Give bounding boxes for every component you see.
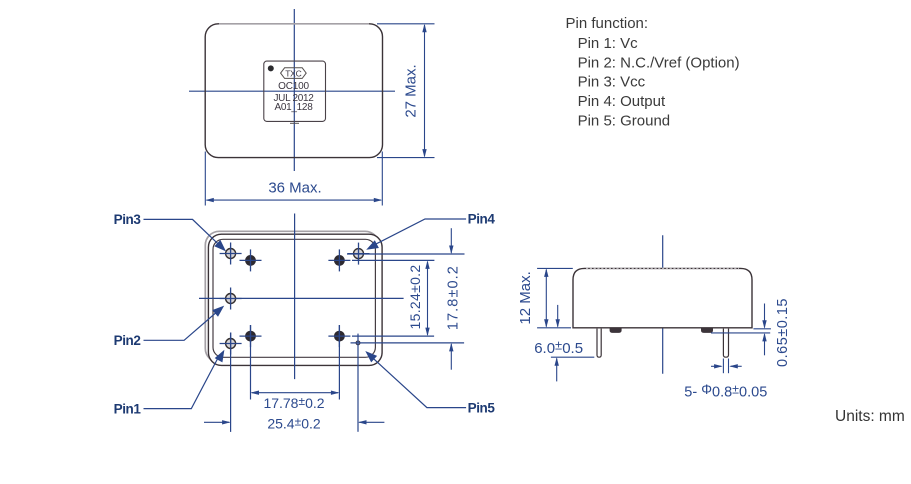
dim 12 Max: line with arrows	[545, 270, 547, 327]
pin 1 hole (gray)	[226, 339, 236, 349]
pin diameter: outside arrows	[711, 365, 721, 367]
dim 12 Max: extension lines	[537, 267, 573, 269]
svg-text:25.4±0.2: 25.4±0.2	[267, 415, 321, 432]
extension line col pad C (17.78 dim)	[250, 325, 252, 400]
dim 6.0: lower outside arrow	[556, 358, 558, 381]
pad C (near pin1) crosshair	[240, 335, 262, 337]
pin 2 crosshair	[220, 298, 242, 300]
bottom view: outer dark outline	[208, 234, 382, 365]
svg-text:A01_128: A01_128	[275, 102, 314, 113]
pad B (near pin4) (dark pad)	[334, 255, 345, 266]
svg-text:Pin function:: Pin function:	[566, 15, 649, 32]
pad B (near pin4) crosshair	[328, 259, 350, 261]
svg-text:OC100: OC100	[278, 81, 309, 92]
pin 5 (small hole)	[356, 341, 360, 345]
TXC logo hexagon	[281, 68, 307, 79]
bottom view: gray lid outline (offset)	[205, 231, 379, 362]
dim 36 Max: dimension line w/ arrows	[207, 199, 382, 201]
svg-text:Pin 2: N.C./Vref (Option): Pin 2: N.C./Vref (Option)	[578, 54, 740, 71]
dim 25.4: outside arrows	[204, 421, 229, 423]
svg-text:Pin4: Pin4	[468, 212, 496, 227]
side view standoff left	[610, 329, 622, 333]
label plate on top view	[264, 61, 326, 121]
svg-text:36 Max.: 36 Max.	[268, 180, 321, 197]
extension line col pin5 (25.4 dim)	[357, 334, 359, 432]
pin 2 hole (gray)	[226, 294, 236, 304]
side view standoff right	[701, 329, 713, 333]
top view lid top edge (gray)	[219, 23, 369, 25]
svg-text:Pin 3: Vcc: Pin 3: Vcc	[578, 74, 646, 91]
leader Pin4	[371, 219, 466, 247]
dim 17.78: line with outward arrows	[252, 392, 339, 394]
leader Pin3	[144, 219, 221, 246]
bottom view: inner outline	[213, 239, 375, 357]
pad C (near pin1) (dark pad)	[245, 331, 256, 342]
svg-text:27 Max.: 27 Max.	[403, 64, 420, 117]
dim 36 Max: extension lines	[204, 152, 206, 206]
pad D (near pin5) crosshair	[328, 335, 350, 337]
side view lid edge (gray dotted)	[586, 267, 739, 269]
svg-text:Pin 1: Vc: Pin 1: Vc	[578, 35, 639, 52]
extension row pad D (15.24 dim)	[352, 335, 434, 337]
pad A (near pin3) (dark pad)	[245, 255, 256, 266]
pin 4 hole (gray)	[354, 249, 364, 259]
leader Pin2	[144, 311, 219, 341]
side view: vertical centerline	[662, 235, 664, 373]
svg-text:5- Φ0.8±0.05: 5- Φ0.8±0.05	[684, 382, 767, 401]
pin 3 crosshair	[220, 253, 242, 255]
svg-text:TXC: TXC	[285, 68, 301, 78]
label center tick	[290, 122, 299, 124]
svg-text:17.8±0.2: 17.8±0.2	[446, 265, 462, 330]
dim 6.0: upper outside arrow	[557, 305, 559, 327]
pin 3 hole (gray)	[226, 249, 236, 259]
svg-text:Pin5: Pin5	[468, 400, 496, 415]
svg-text:12 Max.: 12 Max.	[517, 271, 534, 324]
top view: vertical centerline	[293, 9, 295, 171]
leader Pin1	[144, 356, 220, 409]
extension line col pad D (17.78 dim)	[338, 325, 340, 400]
top view: horizontal centerline	[189, 90, 395, 92]
dim 15.24: line with arrows	[427, 262, 429, 335]
svg-text:17.78±0.2: 17.78±0.2	[263, 394, 324, 411]
bottom view: horizontal centerline	[199, 297, 404, 299]
dim 0.65: outside arrows	[764, 304, 766, 328]
svg-text:Pin3: Pin3	[114, 212, 142, 227]
pad A (near pin3) crosshair	[240, 259, 262, 261]
dim 17.8: outside arrows	[450, 228, 452, 253]
extension row pin5 (17.8 dim)	[351, 342, 465, 344]
svg-text:0.65±0.15: 0.65±0.15	[775, 298, 791, 367]
side view left pin	[597, 329, 601, 358]
top view package outline	[205, 24, 382, 158]
pin 1 crosshair	[220, 343, 242, 345]
dim 0.65: extension lines	[753, 328, 771, 330]
pin tip extension line	[551, 356, 594, 358]
pad D (near pin5) (dark pad)	[334, 331, 345, 342]
extension row pin4 (17.8 dim)	[347, 253, 465, 255]
bottom view: vertical centerline	[294, 214, 296, 380]
pin diameter: extension lines	[722, 359, 724, 374]
leader Pin5	[370, 355, 467, 408]
svg-text:Pin1: Pin1	[114, 401, 142, 416]
side view right pin	[723, 329, 728, 358]
dim 27 Max: dimension line w/ arrows	[424, 25, 426, 156]
svg-text:Pin 4: Output: Pin 4: Output	[578, 93, 666, 110]
extension line col pin1 (25.4 dim)	[230, 333, 232, 432]
pin 4 crosshair	[348, 253, 370, 255]
svg-text:Pin 5: Ground: Pin 5: Ground	[578, 113, 671, 130]
dim 27 Max: extension lines	[377, 23, 435, 25]
svg-text:Units: mm: Units: mm	[835, 408, 905, 425]
extension row pad B (15.24 dim)	[352, 259, 434, 261]
svg-text:Pin2: Pin2	[114, 333, 141, 348]
svg-text:15.24±0.2: 15.24±0.2	[407, 265, 423, 330]
side view body	[573, 268, 752, 327]
pin1 orientation dot	[268, 65, 274, 71]
